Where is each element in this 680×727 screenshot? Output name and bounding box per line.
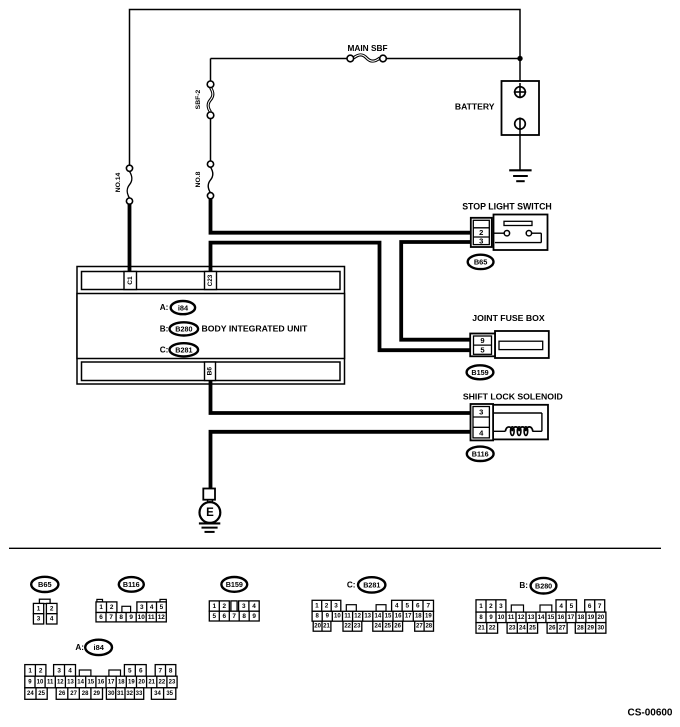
- svg-text:24: 24: [374, 624, 381, 630]
- svg-text:23: 23: [169, 679, 176, 685]
- svg-text:18: 18: [578, 615, 585, 621]
- connector pinout A: i84: [25, 665, 177, 700]
- svg-text:17: 17: [568, 615, 575, 621]
- svg-text:CS-00600: CS-00600: [627, 707, 672, 718]
- svg-text:5: 5: [406, 603, 410, 610]
- svg-text:11: 11: [508, 615, 515, 621]
- svg-text:STOP LIGHT SWITCH: STOP LIGHT SWITCH: [462, 201, 552, 211]
- wire top loop: battery positive feed to NO.14 branch: [130, 10, 521, 169]
- svg-text:NO.14: NO.14: [115, 172, 122, 192]
- svg-text:11: 11: [344, 614, 351, 620]
- svg-text:11: 11: [148, 614, 155, 621]
- svg-text:3: 3: [479, 237, 483, 246]
- svg-text:20: 20: [138, 679, 145, 685]
- svg-text:9: 9: [480, 336, 484, 345]
- drawing number CS-00600: [627, 707, 672, 718]
- svg-text:10: 10: [138, 614, 146, 621]
- svg-text:14: 14: [538, 615, 545, 621]
- svg-text:1: 1: [479, 603, 483, 610]
- separator line: [9, 547, 661, 549]
- svg-text:2: 2: [325, 603, 329, 610]
- svg-text:3: 3: [57, 667, 61, 674]
- fuse NO.8: [195, 161, 214, 199]
- svg-text:23: 23: [509, 625, 516, 631]
- svg-text:13: 13: [528, 615, 535, 621]
- svg-text:15: 15: [385, 614, 392, 620]
- svg-text:14: 14: [375, 614, 382, 620]
- svg-text:5: 5: [213, 613, 217, 620]
- wire MAIN SBF branch horizontal: [211, 59, 521, 82]
- svg-text:19: 19: [128, 679, 135, 685]
- svg-text:4: 4: [395, 603, 399, 610]
- svg-text:21: 21: [148, 679, 155, 685]
- svg-text:28: 28: [82, 691, 89, 697]
- svg-text:32: 32: [126, 691, 133, 697]
- svg-text:MAIN SBF: MAIN SBF: [347, 43, 387, 53]
- svg-text:9: 9: [129, 614, 133, 621]
- svg-text:B:: B:: [519, 581, 528, 590]
- node A: i84: [160, 301, 195, 314]
- svg-text:B65: B65: [38, 580, 52, 589]
- svg-text:8: 8: [242, 613, 246, 620]
- svg-text:24: 24: [519, 625, 526, 631]
- svg-text:27: 27: [70, 691, 77, 697]
- svg-text:B:: B:: [160, 324, 169, 333]
- svg-text:1: 1: [28, 667, 32, 674]
- svg-text:4: 4: [252, 603, 256, 610]
- svg-text:25: 25: [38, 691, 45, 697]
- svg-text:B281: B281: [363, 581, 380, 590]
- svg-text:12: 12: [354, 614, 361, 620]
- ground E: [199, 489, 220, 532]
- wire NO.14 to C1: [128, 204, 132, 273]
- svg-text:6: 6: [99, 614, 103, 621]
- svg-text:12: 12: [57, 679, 64, 685]
- svg-text:3: 3: [140, 604, 144, 611]
- svg-text:7: 7: [159, 667, 163, 674]
- joint fuse box: [472, 313, 549, 358]
- svg-text:21: 21: [323, 624, 330, 630]
- svg-text:19: 19: [425, 614, 432, 620]
- svg-text:6: 6: [588, 603, 592, 610]
- svg-text:1: 1: [315, 603, 319, 610]
- svg-text:12: 12: [518, 615, 525, 621]
- fuse SBF-2: [195, 81, 214, 119]
- svg-text:C:: C:: [160, 345, 169, 354]
- connector B116 label: [467, 447, 494, 461]
- svg-text:25: 25: [384, 624, 391, 630]
- svg-text:6: 6: [223, 613, 227, 620]
- svg-text:6: 6: [139, 667, 143, 674]
- svg-text:10: 10: [334, 614, 341, 620]
- connector pinout B: B280 label: [519, 578, 556, 594]
- svg-text:B116: B116: [472, 450, 489, 459]
- svg-text:3: 3: [37, 616, 41, 623]
- node C: B281: [160, 343, 198, 356]
- svg-text:B159: B159: [471, 368, 488, 377]
- svg-text:31: 31: [117, 691, 124, 697]
- connector box pins 2,3 of stop light switch: [471, 218, 492, 247]
- svg-text:2: 2: [110, 604, 114, 611]
- svg-text:5: 5: [570, 603, 574, 610]
- svg-text:A:: A:: [75, 643, 84, 652]
- wire between SBF-2 and NO.8: [210, 119, 212, 161]
- svg-text:17: 17: [108, 679, 115, 685]
- svg-text:20: 20: [314, 624, 321, 630]
- svg-text:2: 2: [223, 603, 227, 610]
- svg-text:BATTERY: BATTERY: [455, 102, 495, 112]
- connector box pins 3,4 of shift lock solenoid: [471, 404, 494, 440]
- svg-text:22: 22: [489, 625, 496, 631]
- svg-text:2: 2: [489, 603, 493, 610]
- svg-text:B280: B280: [535, 582, 552, 591]
- wire NO.8 to stop light switch pin 2: [211, 199, 473, 233]
- svg-text:5: 5: [160, 604, 164, 611]
- svg-text:B159: B159: [226, 580, 243, 589]
- svg-text:28: 28: [577, 625, 584, 631]
- connector pinout B116: [96, 599, 166, 622]
- connector pinout C: B281: [312, 600, 433, 631]
- connector pinout B65: [33, 599, 57, 624]
- fuse NO.14: [115, 165, 133, 204]
- svg-text:22: 22: [344, 624, 351, 630]
- junction node at battery feed: [517, 56, 522, 61]
- svg-text:BODY INTEGRATED UNIT: BODY INTEGRATED UNIT: [202, 323, 309, 333]
- svg-text:22: 22: [159, 679, 166, 685]
- wire shift lock solenoid pin 4 to ground E: [211, 432, 473, 490]
- svg-text:27: 27: [416, 624, 423, 630]
- battery B1: [455, 81, 539, 135]
- svg-text:18: 18: [415, 614, 422, 620]
- svg-text:21: 21: [478, 625, 485, 631]
- svg-text:SBF-2: SBF-2: [195, 89, 202, 109]
- svg-text:C1: C1: [127, 276, 134, 285]
- svg-text:13: 13: [364, 614, 371, 620]
- svg-text:B280: B280: [175, 325, 192, 334]
- svg-text:20: 20: [598, 615, 605, 621]
- svg-text:13: 13: [67, 679, 74, 685]
- connector box pins 9,5 of joint fuse box: [470, 334, 495, 357]
- connector B65 label: [468, 255, 494, 269]
- svg-text:26: 26: [549, 625, 556, 631]
- svg-text:3: 3: [334, 603, 338, 610]
- svg-text:3: 3: [242, 603, 246, 610]
- svg-text:16: 16: [98, 679, 105, 685]
- svg-text:4: 4: [50, 616, 54, 623]
- svg-text:B116: B116: [123, 580, 140, 589]
- svg-text:15: 15: [548, 615, 555, 621]
- svg-text:2: 2: [39, 667, 43, 674]
- svg-text:15: 15: [87, 679, 94, 685]
- connector pinout C: B281 label: [347, 577, 386, 592]
- svg-text:C:: C:: [347, 580, 356, 589]
- svg-text:8: 8: [169, 667, 173, 674]
- svg-text:10: 10: [37, 679, 44, 685]
- wire B6 to shift lock solenoid pin 3: [211, 380, 473, 413]
- svg-text:JOINT FUSE BOX: JOINT FUSE BOX: [472, 313, 545, 323]
- svg-text:4: 4: [68, 667, 72, 674]
- connector pinout B: B280: [476, 600, 606, 633]
- svg-text:B65: B65: [474, 258, 488, 267]
- connector pinout B159 label: [221, 577, 247, 592]
- pin C23: [205, 272, 217, 290]
- wire C23 to joint fuse box pin 5: [211, 243, 473, 351]
- svg-text:17: 17: [405, 614, 412, 620]
- pin B6: [205, 362, 216, 381]
- wire battery to ground: [519, 130, 521, 170]
- svg-text:10: 10: [498, 615, 505, 621]
- svg-text:19: 19: [588, 615, 595, 621]
- svg-text:30: 30: [108, 691, 115, 697]
- connector B159 label: [467, 365, 494, 379]
- svg-text:11: 11: [47, 679, 54, 685]
- svg-text:35: 35: [166, 691, 173, 697]
- svg-text:16: 16: [558, 615, 565, 621]
- svg-text:E: E: [206, 507, 214, 519]
- pin C1: [124, 272, 137, 290]
- svg-text:SHIFT LOCK SOLENOID: SHIFT LOCK SOLENOID: [463, 392, 563, 402]
- stop light switch SW1: [462, 201, 552, 250]
- svg-text:A:: A:: [160, 303, 169, 312]
- svg-text:28: 28: [425, 624, 432, 630]
- svg-text:14: 14: [77, 679, 84, 685]
- wire stop light switch pin 3 to joint fuse box pin 9: [401, 242, 472, 340]
- svg-text:34: 34: [154, 691, 161, 697]
- svg-text:3: 3: [479, 408, 483, 417]
- svg-text:33: 33: [136, 691, 143, 697]
- svg-text:29: 29: [587, 625, 594, 631]
- svg-text:i84: i84: [178, 303, 189, 312]
- svg-text:26: 26: [59, 691, 66, 697]
- svg-text:7: 7: [109, 614, 113, 621]
- svg-text:29: 29: [93, 691, 100, 697]
- svg-text:NO.8: NO.8: [195, 171, 202, 187]
- svg-text:1: 1: [99, 604, 103, 611]
- svg-text:27: 27: [559, 625, 566, 631]
- svg-text:23: 23: [354, 624, 361, 630]
- svg-text:4: 4: [150, 604, 154, 611]
- svg-text:26: 26: [394, 624, 401, 630]
- svg-text:7: 7: [232, 613, 236, 620]
- svg-text:3: 3: [499, 603, 503, 610]
- svg-text:16: 16: [395, 614, 402, 620]
- connector pinout B159: [209, 601, 259, 621]
- ground battery: [509, 170, 531, 181]
- svg-text:7: 7: [598, 603, 602, 610]
- svg-text:18: 18: [118, 679, 125, 685]
- shift lock solenoid L1 (coil): [463, 392, 563, 440]
- svg-text:12: 12: [158, 614, 166, 621]
- svg-text:2: 2: [50, 605, 54, 612]
- connector pinout B116 label: [119, 577, 144, 592]
- svg-text:C23: C23: [207, 274, 214, 286]
- svg-text:7: 7: [427, 603, 431, 610]
- svg-text:B6: B6: [207, 367, 214, 376]
- svg-text:24: 24: [27, 691, 34, 697]
- fuse MAIN SBF: [347, 43, 388, 62]
- svg-text:30: 30: [597, 625, 604, 631]
- svg-text:1: 1: [213, 603, 217, 610]
- svg-text:i84: i84: [94, 643, 105, 652]
- svg-text:9: 9: [252, 613, 256, 620]
- svg-text:6: 6: [416, 603, 420, 610]
- svg-text:8: 8: [119, 614, 123, 621]
- svg-text:4: 4: [559, 603, 563, 610]
- connector pinout A: i84 label: [75, 640, 112, 655]
- svg-text:25: 25: [529, 625, 536, 631]
- svg-text:B281: B281: [175, 346, 192, 355]
- connector pinout B65 label: [31, 577, 58, 592]
- body integrated unit U1: [77, 267, 345, 385]
- svg-text:5: 5: [128, 667, 132, 674]
- node B: B280: [160, 322, 198, 335]
- svg-text:1: 1: [37, 605, 41, 612]
